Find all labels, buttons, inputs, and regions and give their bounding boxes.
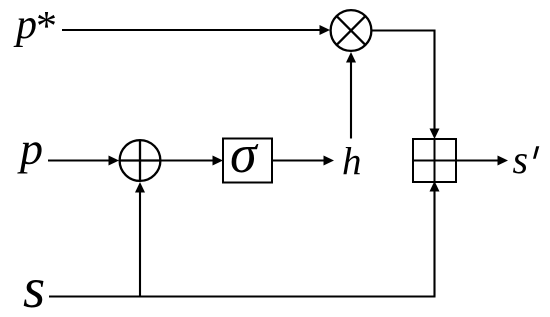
wire multiplier to combiner box <box>372 31 440 140</box>
svg-text:s: s <box>513 137 529 182</box>
wire combiner to s' <box>456 156 508 166</box>
svg-text:s: s <box>23 257 45 317</box>
wire h to multiplier <box>346 52 356 139</box>
wire adder to sigma box <box>162 156 224 166</box>
svg-text:h: h <box>342 141 362 184</box>
node p* label <box>13 2 55 50</box>
combiner box B1 <box>413 139 456 182</box>
wire p* to multiplier <box>62 25 330 35</box>
node s' label <box>513 137 540 182</box>
svg-text:*: * <box>34 4 55 50</box>
multiplier X1 <box>331 10 372 51</box>
wire s to combiner <box>430 181 440 297</box>
svg-text:σ: σ <box>230 124 259 184</box>
wire s to adder <box>135 182 145 297</box>
wire p to adder <box>48 156 119 166</box>
wire sigma to h <box>272 156 334 166</box>
wire s bus <box>49 295 436 297</box>
svg-text:p: p <box>17 123 43 174</box>
adder A1 <box>120 140 161 181</box>
sigma box U1 <box>223 124 272 184</box>
